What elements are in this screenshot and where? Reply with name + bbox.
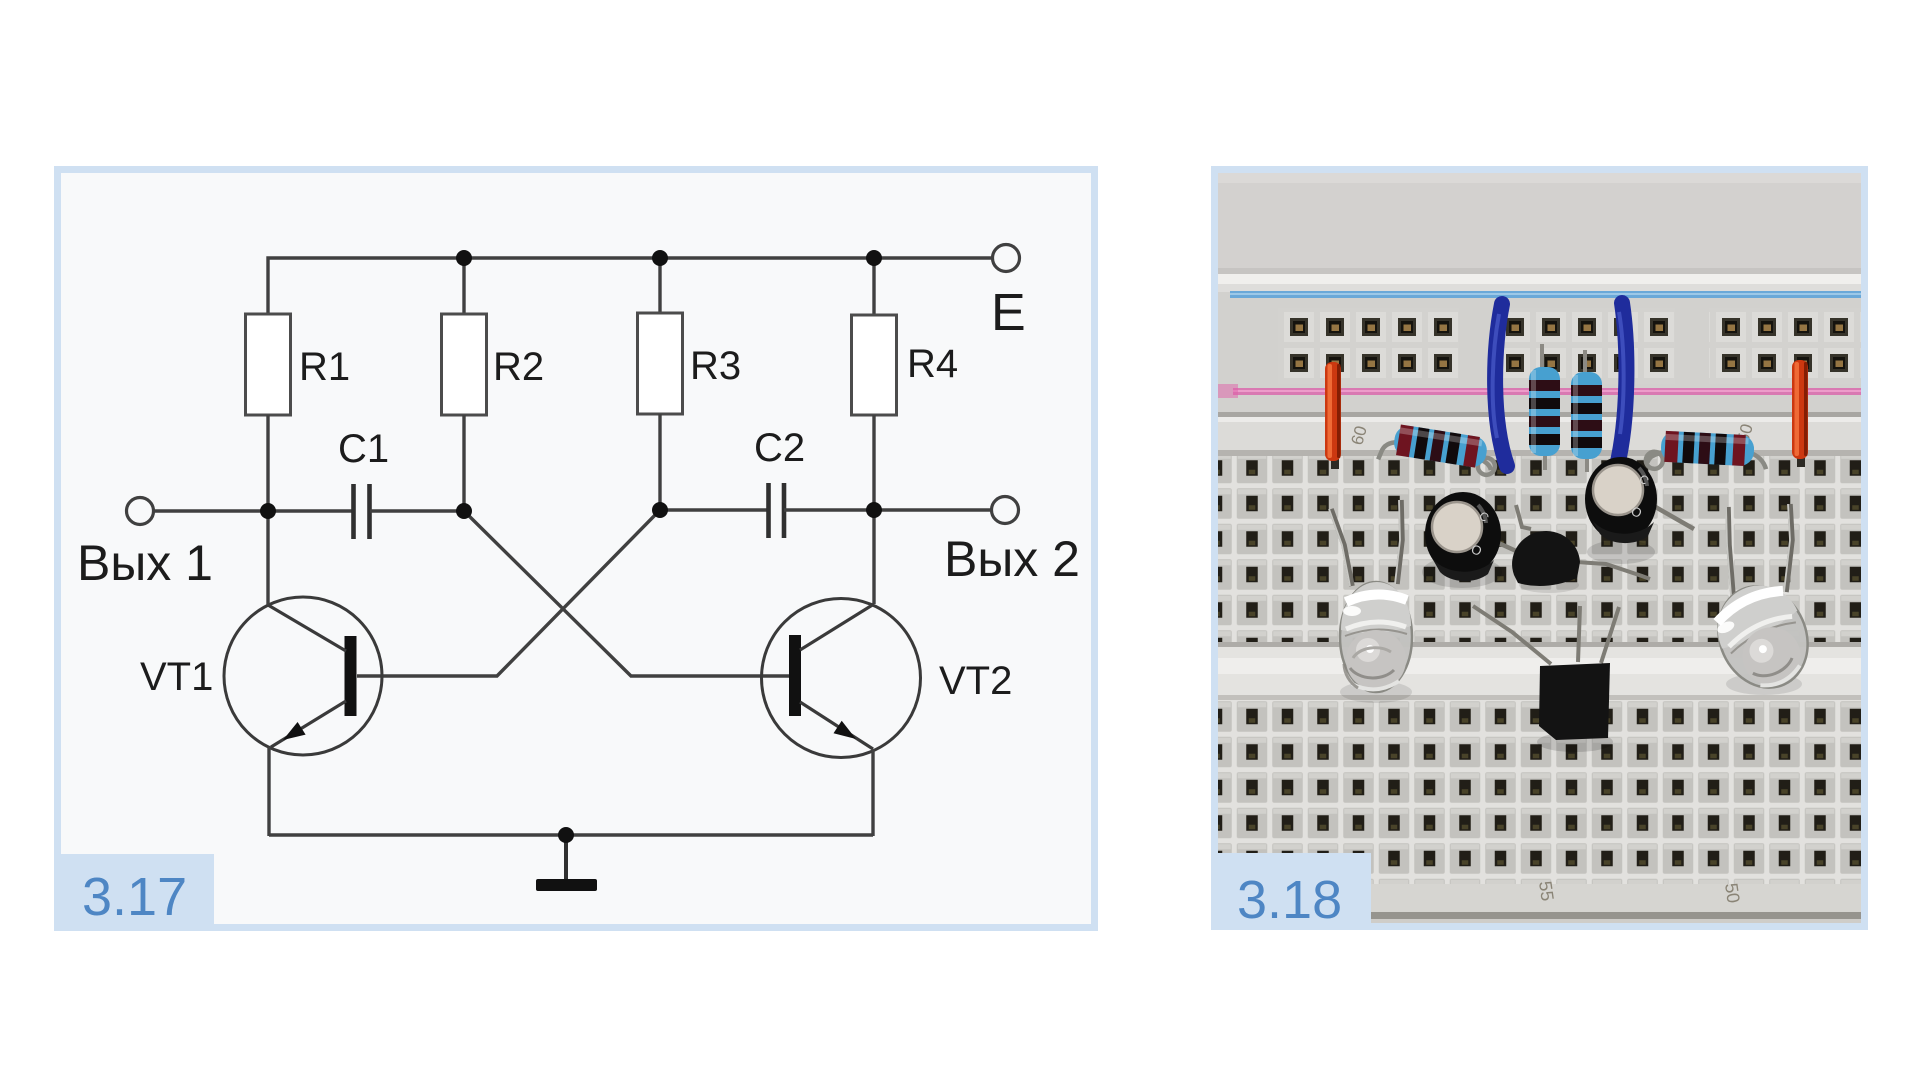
- figure 3.17 caption box: [54, 854, 214, 931]
- photo: blue rail line: [1230, 291, 1861, 298]
- svg-text:Вых 1: Вых 1: [77, 535, 213, 591]
- transistor dome middle (photo): [1512, 505, 1650, 586]
- wire C1 to node B1: [370, 509, 464, 512]
- photo: table surface: [1218, 173, 1861, 283]
- resistor vertical right (photo): [1571, 350, 1602, 472]
- photo: groove 1: [1218, 412, 1861, 455]
- figure 3.18 frame border: [1211, 166, 1868, 930]
- resistor vertical left (photo): [1529, 344, 1560, 470]
- photo: main bottom block: [1218, 700, 1861, 884]
- svg-text:C2: C2: [754, 426, 805, 470]
- jumper wire red right: [1792, 360, 1808, 467]
- svg-text:R4: R4: [907, 342, 958, 386]
- terminal E circle: [993, 245, 1020, 272]
- capacitor electrolytic right (photo): [1585, 457, 1694, 543]
- jumper wire red left: [1325, 362, 1341, 469]
- wire R1 bottom: [266, 415, 269, 511]
- photo: main top block: [1218, 450, 1861, 642]
- photo: bottom strip: [1218, 884, 1861, 923]
- transistor VT1: [140, 511, 382, 755]
- svg-text:3.17: 3.17: [82, 867, 187, 927]
- photo: rail group gaps: [1459, 308, 1493, 384]
- wire VT2 emitter down: [871, 749, 874, 836]
- wire C2 to R4 node: [784, 508, 991, 511]
- transistor flat bottom (photo): [1473, 606, 1619, 740]
- svg-text:E: E: [991, 284, 1026, 342]
- figure 3.18 caption box: [1211, 853, 1371, 930]
- LED left (photo): [1329, 500, 1412, 692]
- photo: pink rail line: [1233, 388, 1861, 395]
- svg-text:VT2: VT2: [939, 659, 1012, 703]
- wire ground stub: [564, 835, 568, 882]
- svg-text:R1: R1: [299, 345, 350, 389]
- jumper wire blue left: [1493, 304, 1507, 466]
- wire cross-couple node B1 to VT2 base: [464, 511, 789, 676]
- terminal Вых 2: [992, 497, 1019, 524]
- wire output 2: [660, 508, 768, 511]
- figure 3.17 frame border: [54, 166, 1098, 931]
- capacitor C1: [338, 427, 389, 539]
- svg-text:Вых 2: Вых 2: [944, 531, 1080, 587]
- svg-text:R2: R2: [493, 345, 544, 389]
- photo: central channel: [1218, 642, 1861, 700]
- resistor R4: [852, 258, 959, 415]
- node dot top R3: [652, 250, 668, 266]
- jumper wire blue right: [1617, 303, 1626, 466]
- node dot out2 R3: [652, 502, 668, 518]
- resistor R2: [442, 258, 545, 415]
- node dot ground: [558, 827, 574, 843]
- resistor R1: [246, 314, 351, 415]
- photo: breadboard base band: [1218, 274, 1861, 460]
- node dot out1 R2: [456, 503, 472, 519]
- ground: [536, 879, 597, 891]
- figure 3.17 paper: [61, 173, 1091, 924]
- photo: breadboard top edge strip: [1218, 274, 1861, 284]
- svg-text:50: 50: [1721, 882, 1744, 905]
- capacitor C2: [754, 426, 805, 538]
- capacitor electrolytic left (photo): [1425, 492, 1527, 581]
- svg-text:3.18: 3.18: [1237, 870, 1342, 930]
- photo: top rail holes: [1278, 308, 1861, 384]
- photo: component shadows: [1422, 556, 1502, 588]
- resistor R3: [638, 258, 742, 414]
- node dot top R2: [456, 250, 472, 266]
- node dot out2 R4: [866, 502, 882, 518]
- transistor VT2: [762, 510, 1013, 758]
- node dot top R4: [866, 250, 882, 266]
- svg-text:55: 55: [1535, 880, 1558, 903]
- wire VT1 emitter down: [267, 747, 270, 836]
- wire output 1 left: [154, 509, 353, 512]
- node dot out1 R1: [260, 503, 276, 519]
- wire R3 bottom: [658, 414, 661, 510]
- resistor horizontal right (photo): [1645, 430, 1767, 475]
- svg-text:C1: C1: [338, 427, 389, 471]
- wire R4 bottom: [872, 415, 875, 510]
- wire R2 bottom: [462, 415, 465, 511]
- resistor horizontal left (photo): [1378, 422, 1499, 478]
- LED right (photo): [1703, 504, 1824, 702]
- wire: top supply rail: [268, 258, 992, 314]
- svg-text:VT1: VT1: [140, 655, 213, 699]
- terminal Вых 1: [127, 498, 154, 525]
- wire bottom emitter rail: [269, 833, 873, 836]
- wire cross-couple node B2 to VT1 base: [357, 510, 660, 676]
- svg-text:R3: R3: [690, 344, 741, 388]
